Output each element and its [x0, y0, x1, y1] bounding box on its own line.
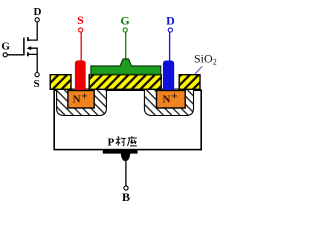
SiO2 layer right segment	[179, 75, 200, 90]
body contact electrode	[103, 150, 138, 161]
wire B	[125, 159, 127, 186]
svg-text:D: D	[34, 6, 42, 18]
SiO2 layer left segment	[50, 75, 71, 90]
drain metal electrode (blue)	[163, 61, 174, 91]
SiO2 layer middle segment	[89, 75, 161, 90]
label P substrate: hanzi di (底)	[127, 136, 136, 146]
svg-text:N: N	[163, 94, 171, 106]
N+ diffusion well left	[57, 89, 107, 116]
transistor Q1 gate electrode line	[23, 38, 25, 56]
terminal S of symbol	[35, 73, 39, 77]
svg-text:+: +	[171, 91, 178, 103]
svg-text:S: S	[33, 78, 39, 90]
terminal D of symbol	[35, 18, 39, 22]
svg-text:P: P	[108, 136, 115, 148]
wire D (blue)	[169, 32, 171, 60]
svg-text:D: D	[166, 13, 175, 27]
N+ region left	[68, 91, 94, 109]
source metal electrode (red)	[75, 60, 86, 90]
N+ diffusion well right	[144, 89, 193, 116]
transistor Q1 gate lead wire	[7, 54, 24, 56]
svg-text:+: +	[81, 91, 88, 103]
wire S (red)	[80, 32, 82, 60]
svg-text:G: G	[1, 40, 10, 52]
svg-text:N: N	[73, 94, 81, 106]
transistor Q1 channel segment top	[27, 37, 29, 41]
transistor Q1 drain lead	[28, 22, 37, 40]
svg-text:SiO2: SiO2	[194, 51, 217, 66]
terminal G	[123, 28, 127, 32]
wire G (green)	[125, 32, 127, 61]
P substrate box	[54, 90, 201, 149]
svg-text:B: B	[122, 190, 130, 203]
svg-text:S: S	[77, 13, 84, 27]
terminal S	[79, 28, 83, 32]
terminal B	[124, 186, 128, 190]
N+ region right	[157, 91, 186, 109]
gate polysilicon layer with contact bump	[91, 59, 161, 75]
transistor Q1 channel segment bottom	[27, 52, 29, 56]
label P substrate: hanzi chen (衬)	[116, 136, 126, 146]
terminal D	[168, 28, 172, 32]
terminal G of symbol	[3, 53, 7, 57]
svg-text:G: G	[120, 13, 129, 27]
leader line SiO2	[195, 66, 203, 74]
transistor Q1 body arrow	[27, 46, 32, 50]
transistor Q1 source lead	[28, 48, 37, 72]
